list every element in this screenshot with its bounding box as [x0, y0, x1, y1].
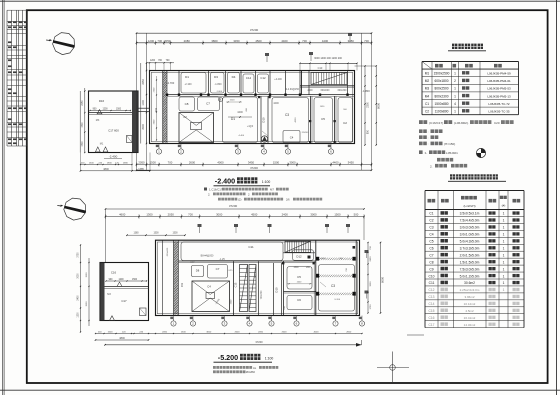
svg-text:2600: 2600 — [282, 332, 288, 334]
svg-text:2.: 2. — [430, 164, 433, 168]
svg-text:C1: C1 — [425, 102, 429, 106]
svg-text:4400: 4400 — [322, 39, 329, 43]
svg-text:1200: 1200 — [118, 279, 124, 281]
svg-text:1: 1 — [503, 246, 505, 250]
svg-text:M1: M1 — [425, 72, 430, 76]
svg-text:M3: M3 — [425, 87, 430, 91]
svg-text:C4: C4 — [429, 233, 433, 237]
svg-text:2/6: 2/6 — [286, 198, 290, 202]
svg-text:1500x2500: 1500x2500 — [434, 72, 450, 76]
svg-text:D3: D3 — [214, 75, 218, 79]
svg-text:2.0x1.5x5.0m: 2.0x1.5x5.0m — [460, 253, 480, 257]
svg-text:4.5m2: 4.5m2 — [465, 309, 474, 313]
svg-text:3000 1400 200 1200 200: 3000 1400 200 1200 200 — [314, 57, 342, 60]
svg-text:2.: 2. — [208, 192, 211, 196]
svg-text:C2: C2 — [183, 115, 187, 119]
svg-text:2400: 2400 — [282, 213, 289, 217]
svg-text:2.25x2.0x3.0m: 2.25x2.0x3.0m — [460, 288, 480, 292]
svg-text:(L06J002).: (L06J002). — [454, 121, 469, 125]
svg-text:2050: 2050 — [164, 39, 171, 43]
svg-text:2050: 2050 — [258, 332, 264, 334]
svg-text:1100x800: 1100x800 — [435, 110, 449, 114]
svg-text:3.96m2: 3.96m2 — [464, 295, 474, 299]
svg-text:4500: 4500 — [251, 213, 258, 217]
svg-text:C4: C4 — [290, 136, 294, 140]
svg-text:C15: C15 — [428, 309, 434, 313]
svg-text:1500: 1500 — [293, 267, 299, 269]
svg-text:L06JK05-PM5-53: L06JK05-PM5-53 — [487, 87, 511, 91]
svg-text:C3: C3 — [331, 284, 335, 288]
svg-text:4000: 4000 — [314, 332, 320, 334]
svg-text:(LxWxH): (LxWxH) — [463, 204, 475, 208]
svg-text:C8: C8 — [429, 260, 433, 264]
svg-text:(H=150): (H=150) — [444, 142, 455, 146]
svg-text:4400: 4400 — [281, 39, 288, 43]
svg-text:37200: 37200 — [250, 28, 259, 32]
svg-text:1: 1 — [503, 281, 505, 285]
svg-text:1500: 1500 — [132, 279, 138, 281]
svg-text:C7: C7 — [206, 102, 210, 106]
svg-text:4000: 4000 — [295, 117, 297, 123]
svg-text:C14: C14 — [246, 76, 252, 80]
svg-text:700: 700 — [157, 39, 162, 43]
svg-text:1200: 1200 — [142, 100, 145, 106]
svg-text:DN200: DN200 — [302, 132, 309, 134]
svg-text:(2): (2) — [238, 198, 241, 202]
svg-text:1500: 1500 — [334, 213, 341, 217]
svg-text:C16: C16 — [428, 316, 434, 320]
svg-text:1385: 1385 — [138, 168, 144, 171]
svg-text:C3: C3 — [285, 113, 289, 117]
svg-text:3450: 3450 — [248, 161, 255, 165]
svg-text:C5: C5 — [429, 240, 433, 244]
svg-text:1: 1 — [503, 253, 505, 257]
svg-text:3000: 3000 — [78, 273, 80, 279]
svg-text:2600: 2600 — [346, 332, 352, 334]
svg-text:800x2500: 800x2500 — [434, 87, 448, 91]
svg-text:D10: D10 — [262, 117, 266, 123]
svg-text:1500: 1500 — [150, 161, 157, 165]
svg-text:M3: M3 — [96, 119, 100, 122]
svg-text:C16: C16 — [111, 271, 117, 275]
svg-text:-1.800: -1.800 — [362, 89, 370, 93]
svg-text:1380: 1380 — [123, 163, 129, 165]
svg-text:C9: C9 — [180, 283, 184, 287]
svg-text:5.0x4.3x5.0m: 5.0x4.3x5.0m — [460, 240, 480, 244]
svg-text:C12: C12 — [428, 288, 434, 292]
svg-text:1900: 1900 — [107, 163, 113, 165]
svg-text:1: 1 — [454, 72, 456, 76]
svg-text:3750: 3750 — [78, 252, 80, 258]
svg-text:1500: 1500 — [230, 100, 236, 102]
svg-text:3450: 3450 — [233, 39, 240, 43]
svg-text:+4@0: +4@0 — [247, 126, 254, 128]
svg-text:M1: M1 — [100, 143, 104, 146]
svg-text:C11: C11 — [429, 281, 435, 285]
svg-text:L05J401: L05J401 — [446, 151, 458, 155]
svg-text:4800: 4800 — [103, 168, 109, 171]
svg-text:-2.100: -2.100 — [184, 83, 192, 86]
svg-text:7.5x4.4x5.0m: 7.5x4.4x5.0m — [460, 219, 480, 223]
svg-text:1: 1 — [503, 233, 505, 237]
svg-text:B8-#4@200: B8-#4@200 — [201, 255, 214, 258]
svg-text:C3: C3 — [429, 226, 433, 230]
svg-text:1.C16/C17: 1.C16/C17 — [209, 188, 223, 192]
svg-text:L06JK05-PM4-59: L06JK05-PM4-59 — [487, 72, 511, 76]
svg-text:1500: 1500 — [172, 233, 178, 235]
svg-text:C8: C8 — [185, 102, 189, 106]
svg-text:C10: C10 — [428, 274, 434, 278]
svg-text:1: 1 — [503, 219, 505, 223]
svg-text:7.5x3.0x5.0m: 7.5x3.0x5.0m — [460, 267, 480, 271]
svg-text:2050: 2050 — [138, 161, 145, 165]
svg-text:-4.400: -4.400 — [238, 135, 245, 137]
svg-text:1:100: 1:100 — [265, 357, 274, 361]
svg-text:3000: 3000 — [310, 213, 317, 217]
svg-text:4400: 4400 — [332, 161, 339, 165]
svg-text:C11: C11 — [248, 245, 254, 249]
svg-text:37200: 37200 — [250, 166, 258, 170]
svg-text:10.12m2: 10.12m2 — [464, 302, 476, 306]
svg-text:30.6m2: 30.6m2 — [464, 281, 475, 285]
svg-text:D1: D1 — [185, 75, 189, 79]
svg-text:2600: 2600 — [235, 332, 241, 334]
svg-text:1200: 1200 — [78, 312, 80, 318]
svg-text:D12: D12 — [296, 255, 302, 259]
svg-text:C5: C5 — [297, 275, 301, 279]
svg-text:1500: 1500 — [82, 141, 84, 147]
svg-text:C13: C13 — [428, 295, 434, 299]
svg-text:1: 1 — [454, 110, 456, 114]
svg-text:700x300: 700x300 — [261, 290, 263, 300]
svg-text:800x2300: 800x2300 — [434, 94, 448, 98]
svg-text:C13: C13 — [318, 66, 323, 70]
svg-text:1: 1 — [454, 87, 456, 91]
svg-text:-2.400: -2.400 — [215, 177, 235, 186]
svg-text:C12: C12 — [260, 76, 266, 80]
svg-text:1: 1 — [503, 226, 505, 230]
svg-text:700: 700 — [168, 161, 173, 165]
svg-text:C13: C13 — [234, 282, 238, 287]
svg-text:16.41m2: 16.41m2 — [464, 316, 476, 320]
svg-text:500: 500 — [354, 213, 359, 217]
svg-text:1500: 1500 — [82, 122, 84, 128]
svg-text:1.5x1.5x5.0m: 1.5x1.5x5.0m — [460, 260, 480, 264]
svg-text:3.0x1.0x5.0m: 3.0x1.0x5.0m — [460, 233, 480, 237]
svg-text:-2.400: -2.400 — [109, 155, 118, 159]
svg-text:C17: C17 — [428, 323, 434, 327]
svg-text:2: 2 — [454, 79, 456, 83]
svg-text:2050: 2050 — [168, 213, 175, 217]
svg-text:1: 1 — [503, 274, 505, 278]
svg-text:4500: 4500 — [255, 39, 262, 43]
svg-text:2450: 2450 — [370, 256, 372, 262]
svg-text:C17: C17 — [121, 299, 127, 303]
svg-text:2000: 2000 — [307, 90, 313, 92]
svg-text:1: 1 — [503, 288, 505, 292]
svg-text:850: 850 — [367, 129, 370, 134]
svg-text:-1.25: -1.25 — [219, 258, 225, 261]
svg-text:2400: 2400 — [78, 295, 80, 301]
svg-text:3.5x0.5x3.1m: 3.5x0.5x3.1m — [460, 212, 480, 216]
svg-text:4400: 4400 — [273, 102, 279, 105]
svg-text:1200: 1200 — [102, 109, 108, 111]
svg-text:-5.200: -5.200 — [334, 299, 341, 301]
svg-text:M3: M3 — [107, 293, 111, 296]
svg-text:M4: M4 — [425, 94, 430, 98]
svg-text:1500: 1500 — [86, 301, 88, 307]
svg-text:-2.700: -2.700 — [167, 81, 175, 85]
svg-text:600x600: 600x600 — [167, 247, 169, 256]
svg-text:1:100: 1:100 — [262, 180, 271, 184]
svg-text:1380: 1380 — [133, 233, 139, 235]
svg-text:2600: 2600 — [189, 161, 196, 165]
svg-text:3000: 3000 — [289, 161, 296, 165]
svg-text:1500: 1500 — [116, 109, 122, 111]
svg-text:C20: C20 — [494, 121, 500, 125]
svg-text:L06JK05-PM4-61: L06JK05-PM4-61 — [487, 79, 511, 83]
svg-text:2050: 2050 — [82, 100, 84, 106]
svg-text:5.0x1.2x5.0m: 5.0x1.2x5.0m — [460, 274, 480, 278]
svg-text:3000: 3000 — [216, 213, 223, 217]
svg-text:1500x880: 1500x880 — [434, 102, 448, 106]
svg-text:700: 700 — [302, 39, 307, 43]
svg-text:-1.800: -1.800 — [214, 83, 222, 86]
svg-text:4: 4 — [454, 102, 456, 106]
svg-text:4400: 4400 — [237, 111, 243, 114]
svg-text:1500: 1500 — [89, 163, 95, 165]
svg-text:600x300: 600x300 — [338, 90, 348, 92]
svg-text:1200: 1200 — [148, 39, 155, 43]
svg-text:C9: C9 — [429, 267, 433, 271]
svg-text:700: 700 — [188, 213, 193, 217]
svg-text:1: 1 — [503, 212, 505, 216]
svg-text:3450: 3450 — [348, 161, 355, 165]
svg-text:1500: 1500 — [86, 272, 88, 278]
svg-text:+4.400: +4.400 — [274, 78, 282, 81]
svg-text:1: 1 — [503, 260, 505, 264]
svg-text:D10: D10 — [275, 287, 279, 293]
svg-text:1500: 1500 — [181, 332, 187, 334]
svg-text:D8: D8 — [196, 269, 200, 273]
svg-text:C6: C6 — [297, 298, 301, 302]
svg-text:D16: D16 — [99, 99, 105, 103]
svg-text:M-4 #4@150: M-4 #4@150 — [285, 88, 300, 91]
svg-text:600x1800: 600x1800 — [434, 79, 448, 83]
svg-text:L06JK05-TC-35: L06JK05-TC-35 — [488, 110, 510, 114]
svg-text:C14: C14 — [428, 302, 434, 306]
svg-text:C2: C2 — [429, 219, 433, 223]
svg-text:C6: C6 — [429, 246, 433, 250]
svg-text:8000: 8000 — [381, 277, 385, 283]
svg-text:600x600: 600x600 — [321, 90, 331, 92]
svg-text:37200: 37200 — [255, 340, 263, 344]
svg-text:C2: C2 — [343, 121, 347, 125]
svg-text:(#): (#) — [502, 204, 506, 208]
svg-text:C4: C4 — [207, 285, 211, 289]
svg-text:1300: 1300 — [146, 213, 153, 217]
svg-text:AL: AL — [253, 366, 257, 370]
svg-text:1500: 1500 — [108, 332, 114, 334]
svg-text:700: 700 — [364, 39, 369, 43]
svg-text:1500: 1500 — [321, 258, 327, 260]
svg-text:2300: 2300 — [367, 102, 370, 108]
svg-text:1: 1 — [503, 240, 505, 244]
svg-text:C9: C9 — [154, 108, 158, 112]
svg-text:C17 600: C17 600 — [108, 129, 119, 133]
svg-text:3.7x3.3x5.0m: 3.7x3.3x5.0m — [460, 246, 480, 250]
svg-text:-3.25: -3.25 — [228, 270, 234, 272]
svg-text:C2: C2 — [425, 110, 429, 114]
svg-text:14.32m2: 14.32m2 — [464, 323, 476, 327]
svg-text:3.0x3.0x5.0m: 3.0x3.0x5.0m — [460, 226, 480, 230]
svg-text:3800: 3800 — [211, 39, 218, 43]
svg-text:1200: 1200 — [150, 60, 156, 62]
svg-text:1750: 1750 — [370, 304, 372, 310]
svg-text:C5: C5 — [321, 117, 325, 121]
svg-text:(C16/C17): (C16/C17) — [429, 121, 443, 125]
svg-text:37200: 37200 — [229, 204, 238, 208]
svg-text:4800: 4800 — [119, 337, 125, 340]
svg-text:4000: 4000 — [217, 161, 224, 165]
svg-text:1: 1 — [503, 267, 505, 271]
svg-text:L06JK05-PM5-13: L06JK05-PM5-13 — [487, 94, 511, 98]
svg-text:1500: 1500 — [273, 161, 280, 165]
svg-text:#Dx#60: #Dx#60 — [246, 370, 255, 374]
svg-text:4600: 4600 — [119, 213, 126, 217]
svg-text:1: 1 — [454, 94, 456, 98]
svg-text:3600: 3600 — [370, 281, 372, 287]
svg-text::1.: :1. — [424, 151, 428, 155]
svg-text:C1: C1 — [429, 212, 433, 216]
svg-text:D4: D4 — [232, 75, 236, 79]
svg-text:8000: 8000 — [377, 103, 381, 109]
svg-text:-5.200: -5.200 — [218, 353, 238, 362]
svg-text:C7: C7 — [429, 253, 433, 257]
svg-text:2050: 2050 — [142, 79, 145, 85]
svg-text:D1: D1 — [231, 117, 235, 121]
svg-text:-1.800: -1.800 — [216, 91, 223, 93]
svg-text:1500: 1500 — [153, 233, 159, 235]
svg-text:L06JK05-TC-72: L06JK05-TC-72 — [488, 102, 510, 106]
svg-text:2900: 2900 — [142, 124, 145, 130]
svg-text:2080: 2080 — [184, 39, 191, 43]
svg-text:2050: 2050 — [162, 332, 168, 334]
svg-text:3000: 3000 — [206, 332, 212, 334]
svg-text:3450: 3450 — [348, 39, 355, 43]
svg-text:M7: M7 — [270, 188, 274, 192]
svg-text:M2: M2 — [425, 79, 430, 83]
svg-text:C7: C7 — [216, 267, 220, 271]
